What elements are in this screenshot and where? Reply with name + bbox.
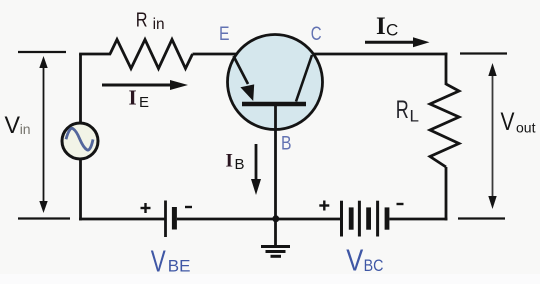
node B junction (272, 215, 279, 222)
label Rin (136, 8, 165, 32)
current arrow IC (365, 37, 430, 47)
label RL (396, 96, 419, 125)
wire right vertical bottom (445, 167, 448, 220)
svg-text:R: R (396, 96, 409, 124)
terminal Vout bottom (458, 217, 505, 219)
svg-text:E: E (139, 94, 149, 111)
svg-text:E: E (219, 23, 230, 45)
svg-text:V: V (346, 243, 363, 278)
svg-text:V: V (151, 243, 166, 278)
current arrow IE (102, 80, 188, 90)
svg-text:V: V (501, 108, 515, 136)
wire base (274, 106, 277, 219)
current arrow IB (251, 144, 261, 195)
label Vin (5, 112, 31, 139)
label VBC (346, 243, 383, 278)
label IB (226, 151, 245, 174)
svg-text:I: I (376, 13, 386, 40)
svg-text:R: R (136, 8, 148, 31)
resistor Rin (110, 40, 193, 69)
wire bottom left (79, 218, 164, 221)
wire top left (79, 53, 111, 56)
svg-text:C: C (311, 23, 322, 45)
transistor Q1 (228, 35, 323, 130)
svg-text:in: in (20, 121, 31, 137)
battery VBC (319, 201, 403, 237)
wire bottom middle (177, 218, 340, 221)
svg-text:I: I (129, 86, 137, 110)
svg-text:B: B (281, 134, 292, 155)
AC source V1 (62, 123, 98, 159)
svg-text:V: V (5, 112, 21, 139)
Vin measurement arrow (39, 56, 47, 213)
terminal Vout top (460, 52, 507, 54)
wire collector to right corner (313, 53, 447, 56)
svg-text:I: I (226, 151, 233, 172)
svg-text:in: in (153, 16, 165, 33)
wire left bottom (79, 158, 82, 220)
label IC (376, 13, 398, 40)
label IE (129, 86, 150, 112)
ground (261, 219, 290, 256)
wire left top (79, 54, 82, 124)
wire bottom right (389, 218, 447, 221)
svg-text:B: B (235, 156, 245, 173)
svg-text:C: C (386, 20, 398, 39)
resistor RL (430, 84, 459, 167)
Vout measurement arrow (488, 63, 496, 209)
svg-text:BC: BC (364, 256, 384, 275)
label VBE (151, 243, 191, 278)
terminal Vin top (18, 51, 66, 53)
wire right vertical top (445, 53, 448, 85)
svg-text:BE: BE (168, 257, 191, 276)
terminal Vin bottom (18, 217, 70, 219)
wire resistor to emitter (193, 53, 238, 56)
battery VBE (141, 201, 193, 238)
svg-text:L: L (410, 106, 419, 125)
label Vout (501, 108, 536, 136)
svg-text:out: out (516, 120, 536, 136)
